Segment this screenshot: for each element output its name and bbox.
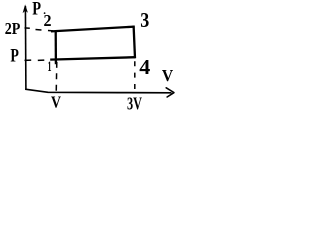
svg-text:P: P [32,0,41,20]
svg-text:4: 4 [139,55,150,79]
tick at P on y-axis [25,59,32,61]
rectangle right edge (3-4) [134,26,135,59]
svg-text:3: 3 [140,8,149,32]
svg-text:1: 1 [48,59,52,75]
vertical dashed line from point 4 to 3V [134,61,136,93]
dashed line at P level [38,59,52,62]
rectangle left edge (1-2) [55,31,58,65]
svg-text:V: V [51,93,62,112]
x-axis arrowhead [166,88,174,97]
svg-text:P: P [10,45,19,66]
dot after top P label [44,12,46,14]
rectangle bottom edge (1-4) [50,57,135,59]
y-axis (P axis) [24,6,27,90]
rectangle top edge (2-3) [51,27,135,32]
y-axis arrowhead [23,4,28,13]
dashed line at 2P level [36,30,54,31]
tick at 2P on y-axis [25,27,30,29]
x-axis (V axis) [25,89,171,93]
svg-text:3V: 3V [127,93,142,113]
vertical dashed line from point 1 to V [55,62,58,94]
svg-text:2P: 2P [5,19,21,38]
svg-text:2: 2 [44,11,52,30]
svg-text:V: V [162,66,174,85]
